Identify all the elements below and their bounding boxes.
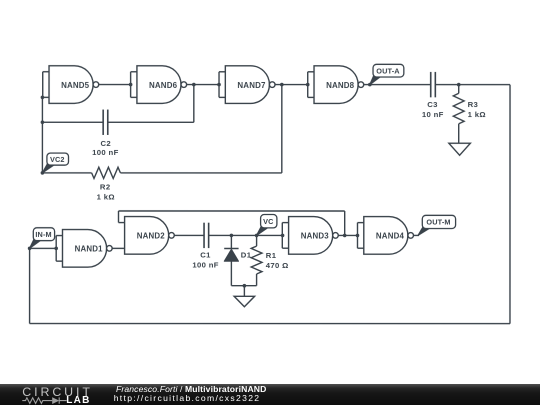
svg-text:NAND5: NAND5 xyxy=(61,81,90,90)
capacitor C1 xyxy=(204,223,209,248)
wire D1/R1 bottom join xyxy=(231,285,256,287)
junction node C2 feedback tap xyxy=(192,83,196,87)
svg-text:NAND1: NAND1 xyxy=(75,245,104,254)
junction node VC xyxy=(255,234,259,238)
wire left loop to IN-M xyxy=(29,248,31,323)
junction at NAND5 bracket xyxy=(41,96,45,100)
label C3 xyxy=(427,100,438,109)
junction at NAND6 input bracket xyxy=(129,83,133,87)
footer credit text xyxy=(116,385,266,403)
wire NAND3 output to NAND4 input xyxy=(338,234,357,236)
svg-text:1 kΩ: 1 kΩ xyxy=(468,110,486,119)
wire NAND5 output to NAND6 input xyxy=(99,84,131,86)
wire bottom loop xyxy=(30,323,510,325)
label R2 value 1 kOhm xyxy=(97,192,115,201)
wire R2 right xyxy=(120,85,281,173)
label D1 xyxy=(241,250,252,259)
wire NAND7 output to NAND8 input xyxy=(275,84,308,86)
junction node C3/R3 xyxy=(457,83,461,87)
label C3 value 10 nF xyxy=(422,110,444,119)
junction at NAND4 bracket xyxy=(356,234,360,238)
junction node R2 feedback tap xyxy=(280,83,284,87)
svg-text:C2: C2 xyxy=(101,139,112,148)
wire NAND6 output to NAND7 input xyxy=(187,84,219,86)
junction at NAND7 input bracket xyxy=(217,83,221,87)
svg-text:OUT-M: OUT-M xyxy=(426,218,450,227)
label C1 value 100 nF xyxy=(192,260,218,269)
label R3 xyxy=(468,100,479,109)
svg-text:NAND4: NAND4 xyxy=(376,232,405,241)
label R1 value 470 Ohm xyxy=(266,261,289,270)
nand gate NAND4 xyxy=(357,217,413,255)
label C2 xyxy=(101,139,112,148)
svg-text:R3: R3 xyxy=(468,100,479,109)
CircuitLab logo xyxy=(0,384,110,405)
nand gate NAND6 xyxy=(131,66,187,104)
wire C2 right xyxy=(108,85,194,123)
label C1 xyxy=(200,250,211,259)
label R2 xyxy=(100,183,111,192)
junction node OUT-A xyxy=(368,83,372,87)
svg-text:OUT-A: OUT-A xyxy=(376,66,400,75)
wire NAND1 output to NAND2 input B xyxy=(112,247,124,249)
wire C1 to VC node xyxy=(209,234,283,236)
flag OUT-A xyxy=(370,64,404,84)
capacitor C3 xyxy=(431,72,436,97)
svg-text:NAND3: NAND3 xyxy=(301,232,330,241)
label C2 value 100 nF xyxy=(92,148,118,157)
wire NAND2 input A feedback xyxy=(118,211,344,235)
svg-text:R2: R2 xyxy=(100,183,111,192)
svg-text:C3: C3 xyxy=(427,100,438,109)
ground below D1 R1 xyxy=(234,296,255,307)
wire R2 left xyxy=(42,172,91,174)
nand gate NAND1 xyxy=(56,230,112,268)
svg-text:NAND6: NAND6 xyxy=(149,81,178,90)
wire NAND8 output to C3 xyxy=(364,84,431,86)
nand gate NAND3 xyxy=(282,217,338,255)
flag VC2 xyxy=(42,153,68,173)
junction at NAND3 bracket xyxy=(281,234,285,238)
nand gate NAND5 xyxy=(43,66,99,104)
junction at ground tap xyxy=(243,284,247,288)
junction node NAND3 out xyxy=(343,234,347,238)
resistor R1 xyxy=(251,235,262,285)
junction node IN-M xyxy=(28,247,32,251)
svg-text:C1: C1 xyxy=(200,250,211,259)
nand gate NAND2 xyxy=(125,217,175,255)
wire NAND4 output to OUT-M xyxy=(413,234,419,236)
resistor R3 xyxy=(453,85,464,144)
svg-text:100 nF: 100 nF xyxy=(92,148,118,157)
junction at NAND1 bracket xyxy=(54,247,58,251)
capacitor C2 xyxy=(103,110,108,135)
svg-text:R1: R1 xyxy=(266,251,277,260)
wire NAND2 output to C1 xyxy=(174,234,204,236)
svg-text:10 nF: 10 nF xyxy=(422,110,444,119)
wire ground stub xyxy=(243,286,245,297)
junction at D1 tap xyxy=(230,234,234,238)
svg-text:NAND7: NAND7 xyxy=(237,81,266,90)
flag IN-M xyxy=(30,228,55,249)
junction at NAND8 input bracket xyxy=(306,83,310,87)
wire IN-M to NAND1 input xyxy=(30,247,57,249)
svg-text:1 kΩ: 1 kΩ xyxy=(97,192,115,201)
diode D1 xyxy=(224,235,238,285)
svg-text:NAND8: NAND8 xyxy=(326,81,355,90)
svg-text:VC2: VC2 xyxy=(50,155,65,164)
resistor R2 xyxy=(92,167,121,178)
nand gate NAND7 xyxy=(219,66,275,104)
junction node VC2 xyxy=(41,171,45,175)
wire NAND5 input vertical xyxy=(41,97,43,172)
junction at C2 tap xyxy=(41,120,45,124)
svg-text:LAB: LAB xyxy=(66,395,90,405)
label R3 value 1 kOhm xyxy=(468,110,486,119)
wire R3 node to right edge xyxy=(459,84,510,86)
wire C3 to R3 node xyxy=(435,84,458,86)
ground below R3 xyxy=(449,143,471,155)
nand gate NAND8 xyxy=(308,66,364,104)
svg-text:D1: D1 xyxy=(241,250,252,259)
label R1 xyxy=(266,251,277,260)
svg-text:NAND2: NAND2 xyxy=(137,232,166,241)
flag OUT-M xyxy=(418,215,456,235)
wire right edge loop xyxy=(509,85,511,324)
footer bar xyxy=(0,384,540,405)
svg-text:IN-M: IN-M xyxy=(35,230,51,239)
svg-text:100 nF: 100 nF xyxy=(192,260,218,269)
flag VC xyxy=(257,214,277,235)
svg-text:470 Ω: 470 Ω xyxy=(266,261,289,270)
svg-text:VC: VC xyxy=(263,217,274,226)
wire C2 left xyxy=(42,121,103,123)
